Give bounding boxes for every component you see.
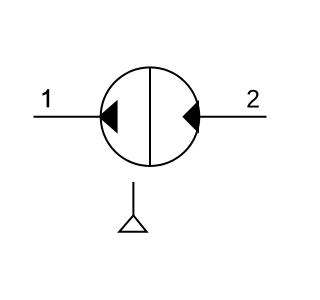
- wire: lead to terminal 1: [34, 116, 102, 118]
- pin number 1: [43, 89, 50, 107]
- right arrowhead (diode from terminal 2): [182, 100, 199, 134]
- earth (open triangle) symbol: [119, 215, 146, 231]
- envelope circle (device body): [101, 67, 200, 166]
- wire: case/earth stub: [132, 182, 134, 216]
- svg-text:2: 2: [246, 86, 260, 114]
- left arrowhead (diode pointing to terminal 1): [98, 100, 117, 134]
- center electrode bar (vertical diameter): [149, 67, 151, 166]
- wire: lead to terminal 2: [199, 116, 267, 118]
